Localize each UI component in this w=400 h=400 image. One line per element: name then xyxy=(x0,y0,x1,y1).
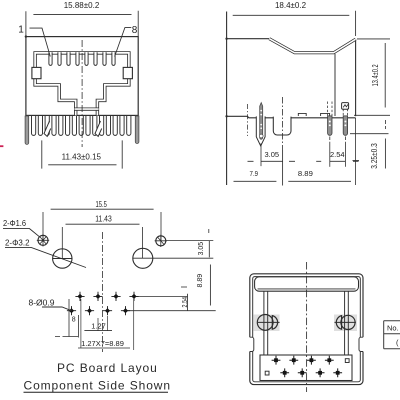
solder legs comb xyxy=(32,116,131,135)
svg-text:11.43±0.15: 11.43±0.15 xyxy=(62,152,102,161)
right side notch xyxy=(359,337,365,351)
row2 ref line xyxy=(126,310,216,312)
junction dot side bottom-left xyxy=(225,115,227,117)
dim 8.89 xyxy=(288,169,351,181)
pins row B xyxy=(280,368,342,377)
dim 15.5 xyxy=(43,200,161,241)
label 2-phi1.6 xyxy=(3,218,40,237)
top recess (double line) xyxy=(269,39,355,53)
svg-text:3.25±0.3: 3.25±0.3 xyxy=(370,143,379,169)
dim 18.4 xyxy=(233,1,356,36)
centerline pin B xyxy=(344,137,346,144)
front lip band xyxy=(255,277,359,291)
recess rear wall line xyxy=(334,54,336,116)
signal pin A (side, gray) xyxy=(328,116,332,135)
junction dot side top-left xyxy=(225,38,227,40)
front view centerline xyxy=(81,40,83,147)
dim 13.4 (right, rotated) xyxy=(357,39,390,108)
dim 2.54 rotated xyxy=(180,287,189,311)
junction dot front box top-left xyxy=(25,35,27,37)
dim 8 stagger xyxy=(55,299,78,338)
pin label 1 xyxy=(18,24,50,56)
dim 3.05 rotated xyxy=(196,229,209,257)
dim 7.9 xyxy=(234,169,277,181)
dim 15.88 xyxy=(26,1,138,36)
svg-text:7.9: 7.9 xyxy=(250,169,259,178)
pads row2 xyxy=(67,306,130,315)
left side notch xyxy=(248,337,254,351)
clip symbol xyxy=(342,103,349,110)
red mark xyxy=(0,145,3,147)
rails left xyxy=(264,291,268,355)
small hole right xyxy=(155,235,167,247)
signal pin B (side, gray) xyxy=(343,116,347,135)
svg-text:2.54: 2.54 xyxy=(180,297,189,308)
pin label 8 xyxy=(115,25,138,57)
front view body outline xyxy=(26,37,138,116)
dim 1.27X7=8.89 xyxy=(78,299,134,350)
label 8-dia0.9 xyxy=(29,298,72,311)
big hole left xyxy=(53,249,72,268)
dim 3.25 (right, rotated) xyxy=(350,120,389,169)
dim 2.54 side xyxy=(316,118,358,185)
left latch window xyxy=(32,67,41,78)
centerline pin A xyxy=(329,137,331,144)
left shield leg (gray) xyxy=(25,116,29,144)
svg-text:1.27X7=8.89: 1.27X7=8.89 xyxy=(81,339,124,348)
hidden pin lines (dashed) xyxy=(328,102,348,116)
svg-text:3.05: 3.05 xyxy=(264,150,279,159)
svg-text:8: 8 xyxy=(72,317,76,324)
rails right xyxy=(345,291,349,355)
svg-text:11.43: 11.43 xyxy=(95,215,112,224)
svg-text:18.4±0.2: 18.4±0.2 xyxy=(275,1,307,10)
row1 ref line xyxy=(134,295,188,297)
post circle left xyxy=(257,315,279,331)
svg-text:2-Φ1.6: 2-Φ1.6 xyxy=(3,218,26,228)
svg-text:1.27: 1.27 xyxy=(91,322,106,331)
small tab 2 on bottom edge xyxy=(321,113,330,116)
right latch window xyxy=(123,67,132,78)
svg-text:3.05: 3.05 xyxy=(196,242,205,256)
pads row1 xyxy=(75,292,138,301)
svg-text:8.89: 8.89 xyxy=(195,274,204,288)
dim 1.27 xyxy=(84,316,112,331)
svg-text:8.89: 8.89 xyxy=(298,169,313,178)
bent EMI finger left xyxy=(44,121,51,137)
ref line big hole right to dim xyxy=(133,257,213,259)
svg-text:13.4±0.2: 13.4±0.2 xyxy=(371,64,380,86)
label 2-phi3.2 xyxy=(5,238,86,268)
svg-text:15.88±0.2: 15.88±0.2 xyxy=(64,1,100,10)
plastic post (side U) xyxy=(273,117,291,135)
underline xyxy=(24,391,169,393)
svg-text:8-Ø0.9: 8-Ø0.9 xyxy=(29,298,55,308)
pins row A xyxy=(272,356,334,365)
svg-text:2-Φ3.2: 2-Φ3.2 xyxy=(5,238,30,248)
marker square top-right xyxy=(345,359,349,363)
small hole left xyxy=(37,234,49,246)
right shield leg (gray) xyxy=(135,116,139,144)
bottom view outer shell xyxy=(250,274,363,385)
mounting post (side) xyxy=(256,103,265,146)
svg-text:Component Side Shown: Component Side Shown xyxy=(24,378,171,392)
post circle right xyxy=(335,315,356,329)
dim 8.89 rotated xyxy=(195,265,210,306)
svg-text:15.5: 15.5 xyxy=(95,200,107,209)
centerline through plastic post xyxy=(282,97,284,150)
gray shade left xyxy=(254,315,280,332)
gray shade right xyxy=(334,315,357,332)
pcb centerline xyxy=(102,232,104,352)
marker square bottom-left xyxy=(265,371,269,375)
latch channel floor xyxy=(75,107,99,110)
svg-text:2.54: 2.54 xyxy=(330,150,345,159)
pcb line ext xyxy=(354,114,390,116)
pin block xyxy=(260,355,352,381)
ref line small hole right to dim xyxy=(166,240,214,242)
dim 3.05 side xyxy=(248,143,296,166)
contact slots (8) xyxy=(49,52,115,65)
dim 11.43 front xyxy=(42,140,122,168)
jack opening outline (double line) xyxy=(35,53,129,116)
svg-text:No.: No. xyxy=(387,323,399,332)
side view body outline xyxy=(227,12,356,186)
dim 11.43 pcb xyxy=(62,215,142,259)
big hole right xyxy=(133,248,153,268)
centerline front lip xyxy=(246,104,248,136)
svg-text:1: 1 xyxy=(18,24,24,35)
bent EMI finger right xyxy=(95,121,102,137)
svg-text:8: 8 xyxy=(132,25,138,36)
small tab 1 on bottom edge xyxy=(298,113,306,116)
svg-text:PC Board Layou: PC Board Layou xyxy=(57,361,158,375)
bottom view centerline xyxy=(306,262,308,392)
